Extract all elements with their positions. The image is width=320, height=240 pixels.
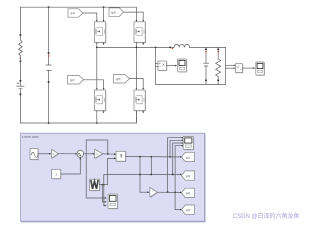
wire constant to sum — [61, 159, 81, 174]
capacitor C2 branch — [205, 47, 207, 63]
wire comparator out to tag g1 — [126, 156, 181, 158]
current measurement I1 — [158, 61, 167, 71]
wire W out — [99, 184, 107, 186]
scope SC2 — [108, 194, 118, 209]
wire left branch lower — [19, 89, 21, 123]
node dot below R1 — [20, 61, 22, 63]
From tag [g2] — [68, 76, 84, 85]
node dot above battery — [20, 80, 22, 82]
wire sine to gain1 — [38, 153, 50, 155]
scope Scope1 — [178, 59, 188, 73]
port tick R1 — [20, 34, 22, 36]
From tag [g4] — [109, 8, 124, 16]
wire bottom DC- rail — [20, 111, 136, 123]
red polarity mark L1 — [172, 48, 174, 49]
wire W line down to scope SC2 in2 — [102, 185, 105, 202]
red polarity mark R1 — [20, 58, 22, 59]
wire sum to gain2 — [84, 153, 94, 155]
wire g2 gate — [84, 80, 104, 88]
sine wave source — [30, 149, 39, 161]
node dot rail / capacitor C1 — [48, 6, 50, 8]
constant 1 — [52, 169, 62, 179]
wire top DC+ rail — [20, 7, 136, 22]
wire DC source branch upper — [19, 7, 21, 40]
capacitor C2 plates — [204, 62, 209, 64]
wire gain2 to comparator in1 — [103, 153, 115, 155]
goto tag [g2] — [182, 188, 195, 197]
svg-text:[g2]: [g2] — [186, 191, 191, 195]
wire to tag g3 — [175, 192, 181, 209]
node dot C1 bottom — [48, 81, 50, 83]
capacitor C1 branch upper — [48, 7, 50, 65]
resistor R2 branch — [217, 47, 219, 59]
voltage measurement VM block — [236, 64, 244, 74]
svg-text:[g3]: [g3] — [116, 77, 121, 81]
wire load return vertical — [155, 47, 157, 84]
node dot gain2 out — [107, 153, 109, 155]
inductor L1 — [174, 44, 190, 47]
scope SC3 — [183, 137, 194, 151]
node dot C1 top — [48, 52, 50, 54]
gain K2 — [95, 149, 104, 159]
port dot before L1 — [169, 47, 171, 49]
svg-text:-K-: -K- — [52, 153, 55, 156]
mosfet Q2 — [134, 22, 146, 45]
wire feedback loop to scope SC2 — [86, 140, 108, 198]
resistor R2 zigzag — [216, 59, 221, 77]
scope SC3 vertical taps — [168, 138, 183, 192]
node dots bottom rail — [48, 122, 50, 124]
port arrow into Q2 drain — [136, 20, 138, 22]
wire mid rail to load — [97, 46, 174, 48]
svg-text:CSDN @白泽的六角龙鱼: CSDN @白泽的六角龙鱼 — [233, 212, 300, 220]
svg-text:4.8075 2050: 4.8075 2050 — [22, 135, 39, 139]
wire left leg Q1 source to Q3 drain — [96, 42, 98, 88]
svg-text:-K-: -K- — [95, 153, 98, 156]
current measurement I1 stubs — [156, 62, 159, 64]
wire g1 gate — [83, 13, 97, 20]
svg-text:[g1]: [g1] — [186, 155, 191, 159]
wire W line down to scope SC2 in3 — [104, 185, 106, 206]
node dot below battery — [20, 94, 22, 96]
resistor R1 — [19, 40, 23, 56]
red polarity mark C1 — [48, 55, 50, 56]
wire W to comparator in2 — [108, 158, 115, 184]
svg-text:[g1]: [g1] — [70, 11, 75, 15]
svg-text:[g3]: [g3] — [186, 208, 191, 212]
node dots on W out — [101, 184, 103, 186]
signal arrow VM to Scope4 — [243, 67, 254, 69]
goto tag [g3] — [182, 205, 195, 214]
mosfet Q1 — [94, 22, 106, 45]
comparator block S1 — [116, 151, 126, 162]
svg-text:[g4]: [g4] — [111, 10, 116, 14]
mosfet Q3 — [94, 90, 106, 123]
goto tag [g1] — [182, 152, 195, 161]
From tag [g1] — [68, 9, 83, 17]
wire right leg Q2 source to Q4 drain — [135, 42, 137, 88]
wire NOT out to tag g2 — [157, 191, 180, 193]
wire gain1 to sum — [58, 153, 76, 155]
wire g4 gate — [124, 12, 144, 20]
node dots on NOT out line — [167, 191, 169, 193]
wire down to NOT input — [139, 157, 141, 193]
From tag [g3] — [114, 75, 130, 84]
wire after L1 — [190, 46, 226, 48]
DC source V1 battery plates — [17, 85, 24, 87]
subsystem annotation box — [21, 133, 206, 222]
goto tag [g4] — [182, 171, 195, 180]
gain K1 — [52, 149, 59, 159]
wire Q1 drain stub — [103, 7, 105, 22]
scope Scope4 — [256, 62, 265, 76]
voltage measurement VM stubs — [226, 64, 235, 66]
signal arrow I1 to Scope1 — [167, 65, 176, 67]
wire load right edge — [225, 47, 227, 84]
wire g3 gate — [130, 79, 144, 89]
node dots mid rail — [96, 47, 98, 49]
wire left branch middle — [19, 56, 21, 86]
node dots on comparator out line — [139, 156, 141, 158]
svg-text:[g2]: [g2] — [70, 78, 75, 82]
logical NOT gate — [150, 187, 158, 198]
plus mark DC source — [17, 83, 19, 85]
repeating sequence W — [90, 179, 101, 191]
wire carrier riser to tag g4 line — [104, 175, 181, 185]
sum junction — [77, 150, 84, 158]
wire load bottom — [156, 83, 226, 85]
node dot rail / Q1 drain — [103, 6, 105, 8]
wire down to tag g4 line — [150, 157, 152, 175]
svg-text:[g4]: [g4] — [186, 174, 191, 178]
mosfet Q4 — [134, 90, 146, 123]
capacitor C1 branch lower — [48, 70, 50, 123]
capacitor C1 plates — [46, 64, 51, 66]
